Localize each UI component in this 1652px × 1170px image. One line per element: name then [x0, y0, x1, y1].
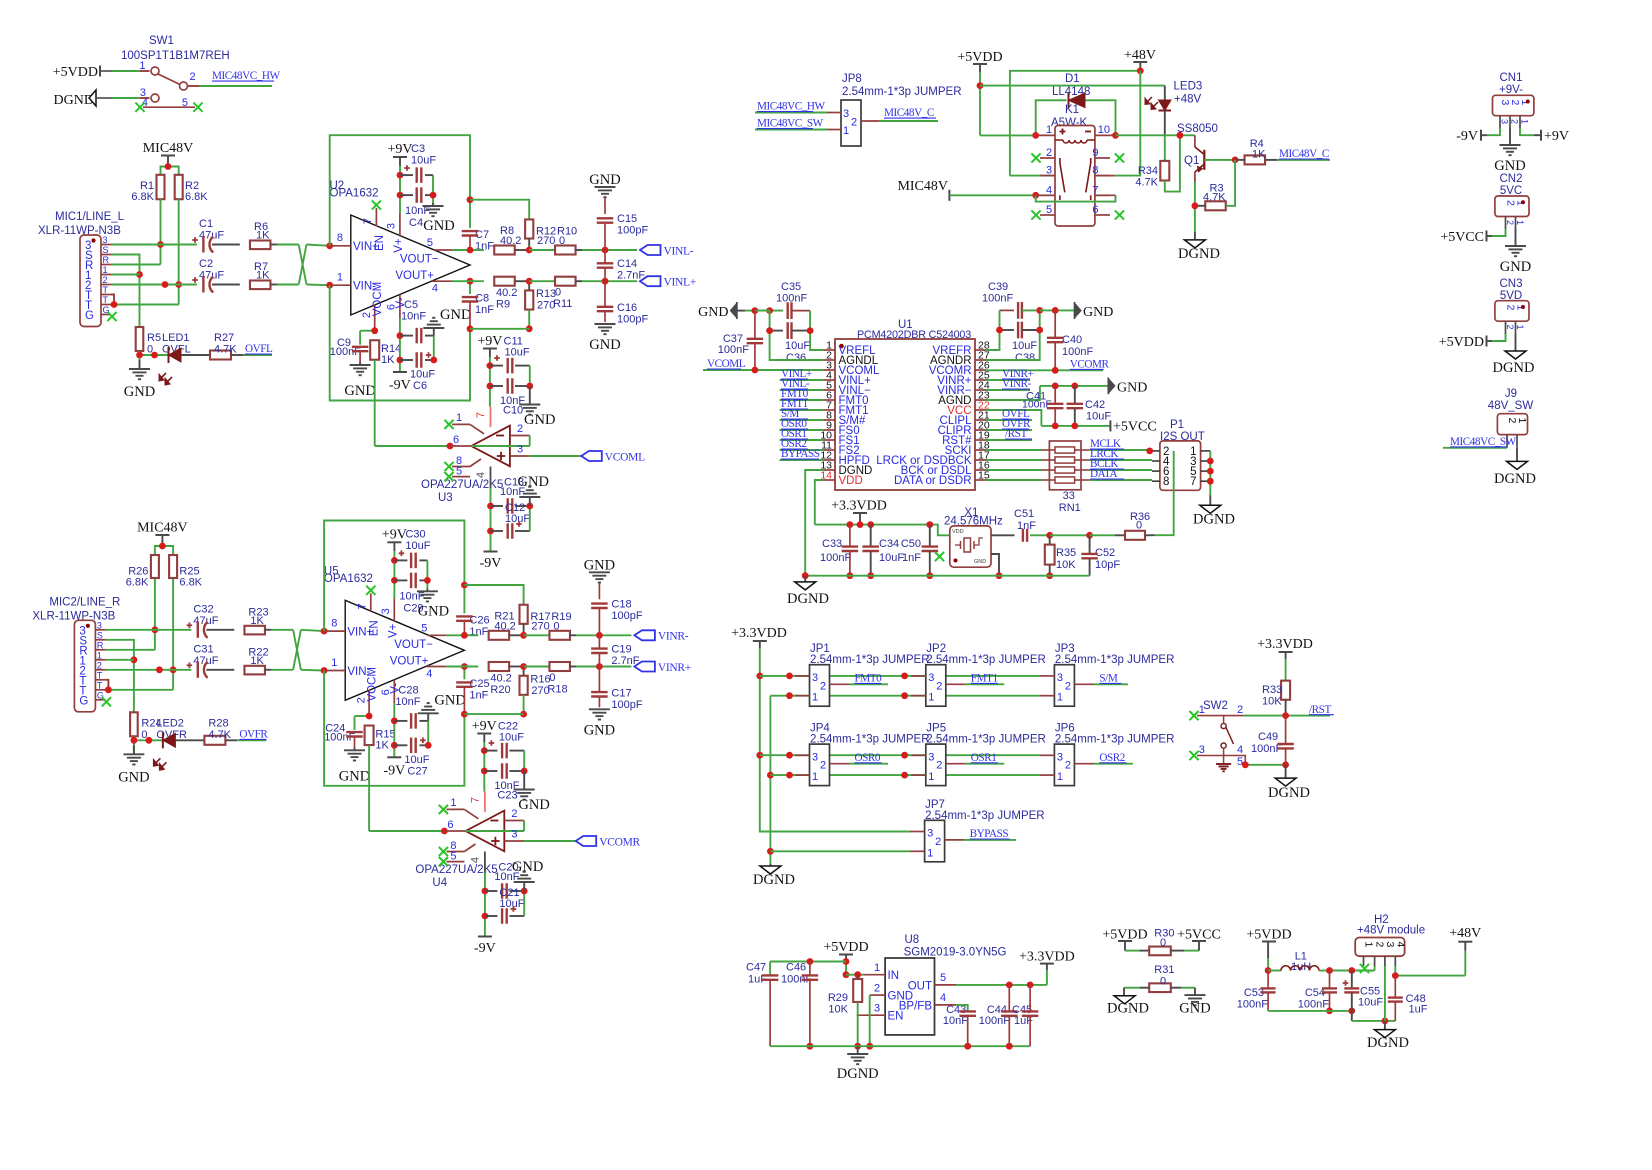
svg-text:FMT0: FMT0	[855, 673, 883, 685]
wire +3.3VDD rail to X1	[815, 521, 950, 535]
svg-text:8: 8	[1163, 476, 1169, 488]
resistor R28 4.7K	[204, 717, 231, 745]
power flag +48V at H2	[1449, 926, 1481, 942]
U4 pin 5 (nc)	[439, 851, 465, 867]
wire DGND rail down to JP7 pin1	[767, 696, 910, 864]
svg-text:MIC2/LINE_R: MIC2/LINE_R	[49, 596, 120, 608]
svg-text:5: 5	[940, 972, 946, 984]
svg-text:2: 2	[936, 680, 942, 692]
svg-text:1: 1	[1199, 704, 1205, 716]
wire MIC48V to R dividers	[161, 163, 179, 175]
svg-text:40.2: 40.2	[500, 235, 521, 247]
svg-text:VINR-: VINR-	[1002, 378, 1032, 390]
svg-text:1: 1	[812, 771, 818, 783]
wire +48V down to relay pin8	[1095, 71, 1140, 176]
connector CN2 5VC	[1495, 173, 1529, 229]
svg-text:1K: 1K	[250, 655, 264, 667]
capacitor C37 100nF	[718, 311, 763, 370]
svg-text:4: 4	[1237, 744, 1243, 756]
resistor R30 0	[1139, 928, 1184, 956]
resistor R36 0	[1090, 511, 1155, 540]
svg-text:0: 0	[1136, 520, 1142, 532]
svg-text:270: 270	[531, 620, 549, 632]
svg-text:4.7K: 4.7K	[208, 729, 231, 741]
ground GND above C13/C12	[512, 859, 543, 891]
svg-text:DGND: DGND	[837, 1066, 879, 1082]
svg-text:VOUT−: VOUT−	[394, 639, 433, 651]
svg-text:3: 3	[928, 672, 934, 684]
resistor R25 6.8K	[169, 555, 203, 588]
U4 pin 3 output to VCOMR	[504, 829, 575, 842]
svg-text:7: 7	[475, 412, 487, 418]
svg-text:33: 33	[1063, 490, 1075, 502]
U2 pin 4 VOUT+	[395, 270, 452, 295]
jumper JP1	[795, 643, 930, 706]
svg-text:2: 2	[1505, 325, 1515, 330]
svg-text:48V_SW: 48V_SW	[1488, 400, 1534, 412]
svg-text:1K: 1K	[250, 615, 264, 627]
power flag +9V	[387, 142, 412, 166]
svg-text:OPA1632: OPA1632	[330, 188, 379, 200]
resistor R17 270	[464, 585, 550, 635]
jumper JP4	[795, 723, 930, 786]
U3 pin 2 feedback	[510, 423, 530, 446]
wire +3.3VDD rail down to JP7 pin3	[756, 648, 910, 832]
svg-text:OPA1632: OPA1632	[324, 573, 373, 585]
svg-text:0: 0	[553, 620, 559, 632]
svg-text:GND: GND	[1117, 381, 1147, 396]
svg-text:VCOML: VCOML	[605, 451, 645, 463]
resistor R18 0	[547, 662, 576, 695]
wire crossover to op-amp inputs	[271, 630, 324, 671]
svg-text:GND: GND	[974, 559, 986, 565]
ground GND under R5	[118, 745, 149, 785]
capacitor C31 47uF	[187, 643, 219, 678]
wire XLR pin3 row to coupling cap	[105, 629, 191, 631]
wire R1 to XLR pin3 row	[157, 199, 164, 264]
svg-text:5: 5	[421, 622, 427, 634]
wire feedback loop bottom	[330, 285, 470, 400]
ground DGND under P1	[1193, 505, 1235, 527]
net label OVFL at U1 pin21	[986, 408, 1032, 420]
power flag +5VDD at L1	[1246, 928, 1291, 971]
resistor R10 0	[555, 226, 582, 255]
svg-text:1: 1	[337, 272, 343, 284]
svg-text:G: G	[85, 310, 94, 322]
U2 pin 2 VOCM	[361, 282, 384, 331]
svg-text:DGND: DGND	[787, 591, 829, 607]
power flag MIC48V	[143, 141, 194, 167]
U2 pin 8 VIN+	[326, 232, 379, 253]
capacitor C47 1uF	[746, 962, 778, 1047]
svg-text:XLR-11WP-N3B: XLR-11WP-N3B	[32, 610, 115, 622]
svg-text:C3: C3	[411, 143, 425, 155]
resistor R9 40.2	[494, 277, 529, 311]
svg-text:2: 2	[874, 983, 880, 995]
net label MIC48VC_HW at JP8	[755, 101, 827, 113]
wire XLR pin2 row to coupling cap	[111, 281, 197, 288]
net label OSR1 at JP5	[965, 752, 1004, 764]
diode D1 LL4148	[1036, 73, 1116, 135]
svg-text:7: 7	[1190, 476, 1196, 488]
svg-text:GND: GND	[434, 692, 465, 708]
svg-text:T: T	[103, 295, 109, 305]
svg-text:GND: GND	[589, 172, 620, 188]
wire DGND rail under U8	[770, 1043, 1030, 1050]
power flag +9V	[477, 334, 502, 357]
net label FMT0 at JP1	[849, 673, 888, 685]
resistor R12 270	[470, 200, 556, 250]
svg-text:10uF: 10uF	[1358, 997, 1383, 1009]
relay K1 A5W-K	[1031, 104, 1124, 226]
svg-text:VOCM: VOCM	[366, 667, 378, 702]
ground DGND left under U1	[787, 576, 829, 607]
U2 pin 6 V-	[386, 294, 408, 318]
svg-text:C34: C34	[879, 538, 899, 550]
net label OVFR	[225, 729, 268, 741]
svg-text:+9V: +9V	[477, 334, 502, 349]
switch SW1	[135, 60, 202, 112]
U4 pin 2 feedback	[504, 808, 524, 831]
net label MIC48V_C right	[1265, 148, 1330, 160]
resistor R20 40.2	[489, 662, 524, 696]
svg-text:P1: P1	[1170, 419, 1184, 431]
power flag -9V	[389, 372, 411, 393]
wire C39/C38 left column to U1 pin28	[986, 310, 1003, 350]
wire DGND rail under X1	[802, 572, 1090, 579]
svg-text:100nF: 100nF	[820, 552, 851, 564]
svg-text:3: 3	[517, 444, 523, 456]
svg-text:+9V: +9V	[382, 527, 407, 542]
connector CN1 +9V-	[1493, 72, 1534, 128]
jumper JP2	[911, 643, 1046, 706]
svg-text:C49: C49	[1258, 731, 1278, 743]
svg-text:4: 4	[1394, 942, 1406, 948]
net label OVFL	[231, 343, 273, 355]
svg-text:+48V: +48V	[1124, 48, 1156, 63]
ground GND above C5/C6	[418, 692, 466, 721]
ground flag DGND	[54, 90, 112, 108]
wire +9V to U2 V+ pin	[397, 166, 404, 213]
capacitor C10 10nF	[490, 378, 530, 416]
jumper JP5	[911, 723, 1046, 786]
wire relay pin4-pin7 link	[1036, 195, 1116, 201]
svg-text:3: 3	[843, 108, 849, 120]
wire SW1 pin2 to MIC48VC_HW	[188, 85, 273, 87]
svg-text:6: 6	[453, 434, 459, 446]
svg-text:C46: C46	[786, 962, 806, 974]
capacitor C34 10uF	[862, 525, 904, 580]
svg-text:2.54mm-1*3p JUMPER: 2.54mm-1*3p JUMPER	[842, 86, 962, 98]
svg-text:VINL-: VINL-	[664, 245, 694, 257]
svg-text:100nF: 100nF	[982, 293, 1013, 305]
svg-text:VOUT+: VOUT+	[390, 655, 429, 667]
resistor R7 1K	[212, 261, 277, 289]
wire C35/C36 right column to U1 pin1	[807, 311, 824, 350]
ground GND under CN2	[1500, 229, 1531, 275]
svg-text:3: 3	[386, 223, 398, 229]
svg-text:R35: R35	[1056, 547, 1076, 559]
capacitor C1 47uF	[192, 218, 224, 253]
capacitor C5 10nF	[400, 299, 434, 343]
net label /RST at U1 pin19	[986, 428, 1032, 440]
capacitor C30 10uF	[394, 528, 430, 568]
svg-text:OSR1: OSR1	[971, 752, 997, 764]
svg-text:R5: R5	[147, 332, 161, 344]
svg-text:OSR2: OSR2	[1099, 752, 1125, 764]
wire LED to R27	[181, 354, 210, 356]
svg-text:MIC48V: MIC48V	[897, 179, 948, 194]
svg-text:/RST: /RST	[1005, 428, 1027, 440]
power flag +9V	[472, 719, 497, 742]
svg-text:GND: GND	[698, 305, 728, 320]
svg-text:3: 3	[812, 751, 818, 763]
svg-text:U4: U4	[432, 877, 447, 889]
svg-text:3: 3	[928, 751, 934, 763]
svg-text:270: 270	[537, 235, 555, 247]
svg-text:4.7K: 4.7K	[1135, 177, 1158, 189]
resistor R22 1K	[206, 646, 271, 674]
net label VINR- at U1 pin24	[986, 378, 1032, 390]
svg-text:+9V: +9V	[472, 719, 497, 734]
resistor R23 1K	[206, 606, 271, 634]
resistor R16 270	[464, 667, 550, 718]
svg-text:C35: C35	[781, 281, 801, 293]
power flag MIC48V at relay	[897, 179, 1039, 201]
wire XLR sleeve S down to R5 column	[105, 640, 137, 713]
svg-text:6: 6	[447, 819, 453, 831]
svg-text:C19: C19	[611, 643, 631, 655]
power flag +3.3VDD at U8	[1019, 950, 1075, 985]
jumper JP6	[1040, 723, 1175, 786]
svg-text:1K: 1K	[256, 270, 270, 282]
net port VINR-	[634, 630, 688, 642]
wire jumper row JP1-JP3 pin1	[770, 692, 1040, 699]
ground GND below C17	[584, 709, 615, 738]
svg-text:C5: C5	[404, 299, 418, 311]
svg-text:S/M: S/M	[1099, 673, 1117, 685]
svg-text:OVFR: OVFR	[239, 729, 268, 741]
net label LRCK	[1090, 448, 1152, 460]
svg-text:T: T	[97, 670, 103, 680]
ground DGND under Q1	[1178, 240, 1220, 262]
wire SW2 pin5 to C49 bottom	[1242, 761, 1289, 768]
resistor R11 0	[553, 277, 582, 310]
svg-text:C54: C54	[1305, 987, 1325, 999]
svg-text:T: T	[103, 285, 109, 295]
jumper JP3	[1040, 643, 1175, 706]
capacitor C39 100nF	[982, 281, 1040, 319]
svg-text:1: 1	[1057, 771, 1063, 783]
svg-text:100nF: 100nF	[1062, 346, 1093, 358]
capacitor C4 10nF	[400, 187, 433, 229]
ground GND under C9	[339, 747, 370, 784]
wire U1 pin23 AGND to GND rail	[986, 386, 1040, 400]
svg-text:10uF: 10uF	[499, 732, 524, 744]
svg-text:3: 3	[380, 608, 392, 614]
svg-text:VOUT−: VOUT−	[400, 254, 439, 266]
svg-text:3: 3	[927, 828, 933, 840]
svg-text:LED3: LED3	[1174, 81, 1203, 93]
svg-text:+3.3VDD: +3.3VDD	[731, 626, 787, 641]
svg-text:GND: GND	[344, 383, 375, 399]
net label MIC48VC_SW at JP8	[755, 118, 827, 130]
svg-text:2: 2	[511, 808, 517, 820]
svg-text:CN2: CN2	[1499, 173, 1522, 185]
svg-text:+5VCC: +5VCC	[1440, 230, 1484, 245]
svg-text:SGM2019-3.0YN5G: SGM2019-3.0YN5G	[904, 947, 1007, 959]
resistor R31 0	[1149, 964, 1174, 992]
svg-text:R20: R20	[490, 684, 510, 696]
svg-text:VCOMR: VCOMR	[599, 836, 640, 848]
svg-text:6.8K: 6.8K	[185, 191, 208, 203]
wire C22/C23 right column to GND	[521, 751, 528, 775]
ground DGND under C49	[1268, 765, 1310, 801]
U4 pin 7 V+	[469, 792, 485, 813]
wire U1 pin13 DGND down	[805, 470, 824, 576]
wire XLR pin1 row	[105, 659, 133, 661]
wire L1 to H2 pin2	[1326, 967, 1375, 974]
net label VINR+ at U1 pin25	[986, 368, 1034, 380]
svg-text:2: 2	[820, 760, 826, 772]
svg-text:VCOMR: VCOMR	[1070, 359, 1110, 371]
svg-text:GND: GND	[1179, 1001, 1210, 1017]
net label VINL+ at U1 pin 4	[780, 368, 824, 380]
svg-text:C28: C28	[398, 684, 418, 696]
U5 pin 2 VOCM	[355, 667, 378, 716]
wire H2 pin3 to DGND rail	[1384, 966, 1386, 1021]
svg-text:VOUT+: VOUT+	[395, 270, 434, 282]
svg-text:2: 2	[1510, 119, 1520, 124]
svg-text:40.2: 40.2	[494, 620, 515, 632]
svg-text:LED2: LED2	[156, 717, 184, 729]
svg-text:U8: U8	[905, 934, 920, 946]
svg-text:C27: C27	[407, 765, 427, 777]
U5 pin 7 EN (no connect)	[356, 586, 380, 637]
wire C13/C12 right column	[526, 503, 533, 531]
svg-text:C18: C18	[611, 598, 631, 610]
wire XLR pin1 row	[111, 274, 140, 276]
jumper JP7	[910, 799, 1045, 862]
svg-text:+9V: +9V	[387, 142, 412, 157]
svg-text:8: 8	[331, 617, 337, 629]
svg-text:1: 1	[103, 265, 108, 275]
svg-text:7: 7	[356, 603, 368, 609]
capacitor C44 100nF	[979, 985, 1018, 1046]
power flag -9V	[383, 757, 405, 778]
node MIC48V_C / SS8050 collector	[1116, 123, 1218, 139]
resistor R15 1K	[365, 726, 396, 752]
capacitor C25 1nF	[456, 663, 489, 717]
svg-text:3: 3	[1384, 942, 1396, 948]
wire U8 OUT to +3.3VDD	[956, 982, 1047, 989]
power flag +5VDD at CN3	[1439, 334, 1506, 350]
ground GND above C18	[584, 557, 615, 599]
wire XLR sleeve S down to R5 column	[111, 255, 143, 328]
svg-text:1: 1	[97, 650, 102, 660]
capacitor C2 47uF	[192, 258, 224, 293]
svg-text:GND: GND	[584, 557, 615, 573]
ground GND flag right of C42	[1108, 378, 1147, 396]
svg-text:R: R	[97, 640, 104, 650]
svg-text:GND: GND	[418, 603, 449, 619]
ground DGND under jumper rails	[753, 864, 795, 888]
capacitor C26 1nF	[456, 582, 489, 638]
junction MCLK at P1	[1146, 448, 1153, 455]
svg-text:10nF: 10nF	[401, 311, 426, 323]
power flag +5VCC	[1110, 420, 1156, 435]
svg-text:-9V: -9V	[1456, 129, 1478, 144]
wire V- to -9V	[397, 318, 404, 372]
resistor R3 4.7K	[1195, 160, 1235, 210]
capacitor C32 47uF	[187, 603, 219, 638]
wire +48V rail to relay pin3	[1010, 67, 1144, 175]
U2 pin 3 V+	[386, 213, 406, 253]
U4 pin 8 (nc)	[439, 840, 476, 856]
svg-text:C51: C51	[1014, 508, 1034, 520]
svg-text:+48V: +48V	[1449, 926, 1481, 941]
capacitor C22 10uF	[484, 721, 524, 759]
ground DGND under H2	[1367, 1021, 1409, 1051]
wire XLR R row up to pin3 row	[105, 649, 154, 651]
svg-text:OVFL: OVFL	[245, 343, 273, 355]
resistor R27 4.7K	[210, 332, 237, 360]
ground DGND under CN3	[1493, 334, 1535, 376]
svg-text:+3.3VDD: +3.3VDD	[1019, 950, 1075, 965]
ground GND below C16	[589, 324, 620, 353]
power flag MIC48V	[137, 521, 188, 547]
capacitor C6 10uF	[400, 352, 435, 392]
wire P1 ground pins to DGND	[1207, 451, 1214, 505]
power flag +5VDD	[53, 65, 112, 80]
svg-text:GND: GND	[512, 859, 543, 875]
U5 pin 6 V-	[380, 680, 402, 704]
svg-text:1: 1	[1515, 220, 1525, 225]
svg-text:10uF: 10uF	[405, 540, 430, 552]
capacitor C13 10nF	[491, 477, 530, 514]
resistor R13 270	[470, 281, 556, 332]
svg-text:10uF: 10uF	[411, 155, 436, 167]
svg-text:VINR-: VINR-	[658, 631, 689, 643]
wire +5VDD to SW1 pin1	[112, 70, 150, 72]
resistor R14 1K	[370, 340, 401, 366]
U2 pin 1 VIN-	[326, 272, 376, 293]
U3 pin 4 V-	[475, 467, 491, 489]
ground GND under R5	[124, 360, 155, 400]
svg-text:BYPASS: BYPASS	[970, 828, 1009, 840]
ground DGND under J9	[1494, 448, 1536, 487]
svg-text:6: 6	[1092, 204, 1098, 216]
svg-text:1: 1	[928, 692, 934, 704]
transistor Q1 SS8050	[1184, 135, 1204, 182]
wire U8 GND pin down	[866, 995, 873, 1050]
svg-text:100pF: 100pF	[617, 225, 648, 237]
wire EN node to DGND rail	[854, 1015, 861, 1049]
wire jumper row JP1-JP3 pin3	[760, 673, 1040, 680]
wire R5 to GND and LED	[131, 736, 163, 752]
wire +5VDD row to U8 IN	[846, 971, 864, 978]
svg-text:+3.3VDD: +3.3VDD	[831, 499, 887, 514]
svg-text:2: 2	[1046, 147, 1052, 159]
svg-text:LED1: LED1	[162, 332, 190, 344]
svg-text:DGND: DGND	[753, 872, 795, 888]
wire R21/R17 junction to R19	[520, 632, 549, 639]
net label VINL- at U1 pin 5	[780, 378, 824, 390]
svg-text:1: 1	[927, 847, 933, 859]
capacitor C3 10uF	[400, 143, 436, 183]
svg-text:R29: R29	[828, 992, 848, 1004]
wire +5VDD to relay pin1 and LED rail	[977, 72, 1165, 135]
